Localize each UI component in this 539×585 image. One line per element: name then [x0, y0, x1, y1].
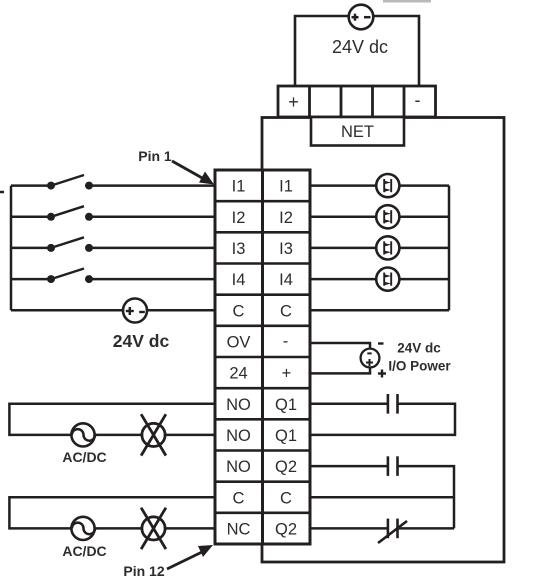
svg-text:-: - [415, 90, 421, 110]
svg-text:I/O Power: I/O Power [388, 359, 451, 374]
svg-text:24V dc: 24V dc [397, 341, 441, 356]
contact NC Q2 crossed [378, 519, 407, 543]
svg-text:C: C [233, 489, 245, 507]
svg-text:+: + [288, 92, 299, 112]
switch S1 [11, 175, 215, 190]
wire C to Q2 bus [310, 496, 454, 499]
svg-text:NO: NO [226, 458, 251, 476]
switch S2 [11, 206, 215, 221]
terminal labels left column [226, 178, 251, 539]
contact NO Q2 [388, 456, 398, 476]
svg-text:24V dc: 24V dc [113, 331, 170, 351]
svg-text:I1: I1 [279, 178, 293, 196]
lamp crossed-out 1 [141, 414, 166, 455]
source AC/DC 2 [62, 517, 106, 559]
wire C common left [11, 309, 215, 312]
switch S3 [11, 237, 215, 252]
svg-text:I1: I1 [232, 178, 246, 196]
enclosure outline [262, 118, 504, 563]
svg-text:NO: NO [226, 396, 251, 414]
svg-text:Q2: Q2 [275, 458, 297, 476]
svg-text:NET: NET [341, 123, 374, 141]
indicator lamp L3 [310, 236, 449, 259]
svg-text:I3: I3 [279, 240, 293, 258]
terminal block row lines [215, 201, 310, 513]
cropped artifact bar top [383, 0, 431, 3]
svg-text:I4: I4 [232, 271, 246, 289]
indicator lamp L1 [310, 174, 449, 197]
svg-text:I2: I2 [232, 209, 246, 227]
relay loop 1 left wires [9, 404, 215, 435]
terminal block body [215, 170, 310, 544]
wire C common right [310, 309, 449, 312]
svg-text:OV: OV [227, 334, 251, 352]
svg-text:I3: I3 [232, 240, 246, 258]
indicator lamp L4 [310, 268, 449, 291]
svg-text:24: 24 [229, 365, 247, 383]
pin label Pin 1 [138, 148, 214, 185]
svg-text:+: + [282, 365, 292, 383]
svg-text:Q1: Q1 [275, 396, 297, 414]
svg-text:Q2: Q2 [275, 521, 297, 539]
wire left edge tick [0, 191, 4, 194]
NET box [311, 117, 404, 146]
svg-text:24V dc: 24V dc [332, 37, 388, 57]
lamp crossed-out 2 [141, 508, 166, 549]
svg-text:C: C [233, 302, 245, 320]
svg-text:Q1: Q1 [275, 427, 297, 445]
svg-text:NC: NC [227, 521, 251, 539]
svg-text:I2: I2 [279, 209, 293, 227]
switch S4 [11, 269, 215, 284]
contact NO Q1 [388, 394, 398, 414]
source V1 24V dc [349, 5, 374, 30]
svg-text:AC/DC: AC/DC [62, 543, 106, 559]
svg-text:I4: I4 [279, 271, 293, 289]
svg-text:-: - [283, 333, 289, 351]
wire NC Q2 [310, 527, 387, 530]
svg-text:Pin 12: Pin 12 [123, 563, 164, 579]
wire left bus [10, 186, 13, 311]
relay loop 2 left wires [9, 497, 215, 528]
svg-text:AC/DC: AC/DC [62, 449, 106, 465]
svg-text:Pin 1: Pin 1 [138, 148, 172, 164]
svg-text:C: C [280, 489, 292, 507]
source V3 I/O power [310, 343, 386, 378]
source AC/DC 1 [62, 423, 106, 465]
terminal strip top [278, 86, 436, 117]
relay output loop Q2 wires [310, 465, 387, 468]
wire 24Vdc supply box [295, 16, 419, 86]
terminal labels right column [275, 178, 297, 539]
wire lamp bus vertical [448, 186, 451, 311]
relay output loop Q1 wires [310, 403, 387, 406]
indicator lamp L2 [310, 205, 449, 228]
svg-text:C: C [280, 302, 292, 320]
source V2 24V dc input supply [123, 299, 147, 323]
pin label Pin 12 [123, 545, 213, 579]
svg-text:NO: NO [226, 427, 251, 445]
